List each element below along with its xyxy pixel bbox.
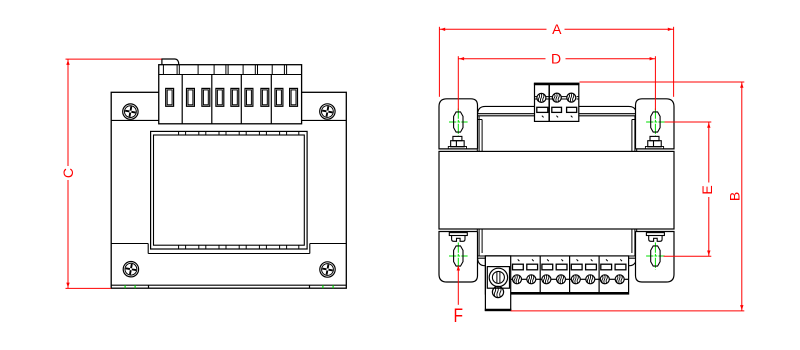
top terminal block bold top edge xyxy=(534,83,580,85)
slot green centerline bottom-left xyxy=(449,243,468,270)
clamp nut top-right xyxy=(645,136,663,149)
window inner rect xyxy=(154,135,305,245)
strip screw 5 xyxy=(571,275,580,284)
F lower screw head xyxy=(492,286,503,297)
svg-text:A: A xyxy=(552,21,562,37)
arrow B top xyxy=(740,83,743,88)
svg-text:E: E xyxy=(699,185,715,194)
mounting slot bottom-right xyxy=(651,246,660,266)
slot green centerline top-left xyxy=(449,109,468,136)
screw bottom-right xyxy=(320,262,335,277)
dimension arrowheads xyxy=(66,28,743,311)
step vertical right xyxy=(309,244,311,254)
F cell xyxy=(485,256,510,311)
dim D line xyxy=(458,58,545,60)
strip screw 1 xyxy=(513,275,522,284)
window bottom tick row xyxy=(179,245,299,249)
foot divider left xyxy=(148,285,150,288)
top block tick marks xyxy=(542,116,573,118)
step vertical left xyxy=(147,244,149,254)
dim E extension line top xyxy=(665,121,712,123)
bobbin bottom flange edge xyxy=(478,258,637,265)
F housing xyxy=(487,267,509,289)
bobbin top flange edge xyxy=(478,106,637,113)
slot green centerline top-right xyxy=(646,109,665,136)
arrow E bottom xyxy=(707,251,710,256)
dim C line xyxy=(67,59,69,166)
arrow A left xyxy=(440,28,445,31)
bracket top-left xyxy=(439,99,478,149)
slot green centerline bottom-right xyxy=(646,243,665,270)
window outer rect xyxy=(151,131,308,249)
bracket bottom-right xyxy=(636,232,675,283)
dim B line xyxy=(741,82,743,311)
arrow D left xyxy=(459,57,464,60)
arrow B bottom xyxy=(740,305,743,310)
mounting slot top-left xyxy=(454,112,463,132)
strip screw 2 xyxy=(527,275,536,284)
dim B extension line top xyxy=(580,81,745,83)
svg-text:D: D xyxy=(551,51,561,67)
bracket bottom-left xyxy=(439,232,478,283)
foot green tick 1 xyxy=(124,285,126,288)
side flange bottom line left xyxy=(111,243,148,245)
shoulder strip dividers xyxy=(163,65,286,75)
foot strip line xyxy=(111,284,346,286)
F cell bold bottom edge xyxy=(485,309,512,311)
arrow D right xyxy=(650,57,655,60)
svg-text:C: C xyxy=(60,168,76,178)
mounting slot bottom-left xyxy=(454,246,463,266)
strip connector lines xyxy=(511,278,629,280)
bracket top-right xyxy=(636,99,675,149)
top block connector lines xyxy=(535,97,579,99)
foot green tick 3 xyxy=(322,285,324,288)
terminal block shoulder line xyxy=(159,74,302,76)
bobbin top shoulder lines xyxy=(477,113,636,115)
F screw inner circle xyxy=(492,271,504,283)
arrow E top xyxy=(707,123,710,128)
dim C extension line bottom xyxy=(66,287,112,289)
terminal slots (9 double rects) xyxy=(166,88,298,106)
arrow A right xyxy=(668,28,673,31)
clamp cup bottom-right xyxy=(646,233,664,242)
top block screw 2 xyxy=(552,93,561,102)
bottom terminal strip xyxy=(485,256,628,294)
screw bottom-left xyxy=(123,262,138,277)
strip bold bottom edge xyxy=(511,292,629,294)
bobbin bottom walls xyxy=(477,229,636,256)
clamp nut top-left xyxy=(448,136,466,149)
dim D extension line left xyxy=(457,56,459,110)
side flange bottom line right xyxy=(310,243,347,245)
svg-text:B: B xyxy=(727,192,743,201)
strip tick marks xyxy=(518,259,622,261)
strip windows xyxy=(513,264,626,270)
strip screw 7 xyxy=(600,275,609,284)
dim C extension line top xyxy=(66,58,162,60)
dim B extension line bottom xyxy=(511,310,745,312)
top flange bottom line right xyxy=(301,119,347,121)
dim A extension line right xyxy=(673,27,675,97)
strip screw 8 xyxy=(615,275,624,284)
top block screw 1 xyxy=(537,93,546,102)
foot green tick 4 xyxy=(332,285,334,288)
core band xyxy=(439,151,674,229)
foot green tick 2 xyxy=(134,285,136,288)
terminal block top cap bump xyxy=(162,59,179,65)
strip screw 4 xyxy=(557,275,566,284)
dim E line xyxy=(708,122,710,183)
screw top-left xyxy=(123,104,138,119)
clamp cup bottom-left xyxy=(449,233,467,242)
terminal block cell dividers xyxy=(182,75,271,124)
dim F leader line xyxy=(457,266,459,305)
step horizontal line xyxy=(148,253,310,255)
bobbin top walls xyxy=(477,116,636,152)
terminal block body (front) xyxy=(159,65,302,124)
strip dividers xyxy=(540,256,599,294)
arrow F xyxy=(457,266,460,271)
F screw outer circle xyxy=(489,268,507,286)
top terminal block (plan) xyxy=(535,83,579,121)
F screw slot xyxy=(496,272,498,283)
dim D extension line right xyxy=(654,56,656,110)
strip screw 6 xyxy=(586,275,595,284)
top block screw 3 xyxy=(567,93,576,102)
svg-text:F: F xyxy=(453,306,463,327)
screw top-right xyxy=(320,104,335,119)
chassis plate outline xyxy=(111,92,346,288)
window top tick row xyxy=(179,131,299,135)
arrow C bottom xyxy=(66,283,69,288)
dim E extension line bottom xyxy=(664,255,712,257)
top flange bottom line left xyxy=(111,119,159,121)
foot divider right xyxy=(309,285,311,288)
top terminal block divider xyxy=(548,83,550,121)
strip screw 3 xyxy=(542,275,551,284)
arrow C top xyxy=(66,60,69,65)
top block windows xyxy=(537,107,577,112)
bobbin bottom shoulder lines xyxy=(477,255,636,257)
dim A extension line left xyxy=(438,27,440,97)
dim A line xyxy=(439,28,546,30)
mounting slot top-right xyxy=(651,112,660,132)
